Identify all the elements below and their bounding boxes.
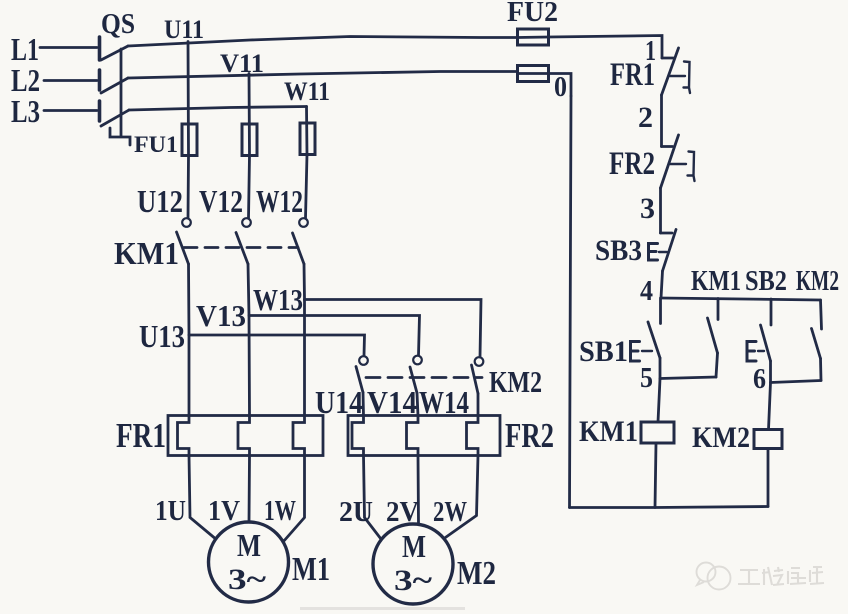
fuse FU1 pole 1 body [182,124,197,156]
pushbutton SB1 blade [648,322,660,358]
wire branch V13 to KM2 pole 2 [249,316,420,356]
wire fuse FU1c to contactor KM1 pole 3 [306,155,308,219]
pushbutton SB2 actuator E [747,342,756,362]
wire node 2 to node 3 [659,188,662,233]
fuse FU2a body [518,29,549,45]
contactor KM2 pole 1 fixed contact circle [359,356,368,365]
svg-text:M: M [237,527,261,563]
wire coil KM2 to bottom rail [767,449,770,507]
wire branch W13 to KM2 pole 3 [305,300,482,358]
pushbutton SB1 actuator E [631,342,640,362]
fuse FU2a through wire [518,36,549,39]
contactor KM2 pole 1 blade [356,367,363,393]
contactor KM2 pole 3 blade [472,365,479,394]
wire phase W11 horizontal [129,107,307,111]
svg-text:1V: 1V [208,495,240,527]
thermal contact FR2 release symbol [688,152,695,182]
wire L1 lead-in [40,46,97,49]
svg-text:U12: U12 [137,183,183,219]
thermal relay FR1 heater 1 [178,416,190,456]
motor M2 circle [373,524,453,604]
svg-text:SB3: SB3 [595,234,642,267]
svg-text:KM2: KM2 [489,364,542,399]
svg-text:V11: V11 [220,49,264,78]
thermal relay FR1 heater 3 [293,416,305,456]
switch QS linkage bar [120,49,123,136]
svg-text:W11: W11 [284,77,330,106]
svg-text:5: 5 [640,363,653,394]
thermal relay FR2 heater 3 [467,416,479,456]
svg-text:FR2: FR2 [505,416,554,455]
svg-text:3~: 3~ [228,563,266,596]
svg-text:SB2: SB2 [745,266,787,297]
svg-text:M1: M1 [292,551,330,588]
contactor KM1 pole 1 blade [177,232,189,264]
contact KM2 aux bottom wire [819,359,822,381]
svg-text:2W: 2W [433,496,467,528]
svg-text:U11: U11 [164,15,204,44]
svg-text:2: 2 [638,101,653,134]
thermal contact FR1 blade [662,48,679,95]
wire branch U13 to KM2 pole 1 [189,335,365,356]
svg-text:V12: V12 [199,183,243,219]
wire node 4 rail [661,298,821,300]
thermal contact FR2 blade [661,135,679,188]
watermark text [738,567,824,585]
contact KM1 aux bottom wire [716,353,718,377]
wire SB2 to node 6 [769,361,772,383]
fuse FU1 pole 3 body [300,123,315,155]
contactor KM1 pole 2 blade [236,233,248,265]
motor M1 circle [209,522,289,602]
svg-text:1W: 1W [264,495,296,527]
contactor KM1 pole 1 fixed contact circle [182,218,191,227]
pushbutton SB1 top wire [659,298,662,324]
svg-text:4: 4 [640,276,653,307]
svg-text:W12: W12 [256,183,303,219]
pushbutton SB2 dash [758,350,764,352]
switch QS pole 2 blade [101,78,128,93]
wire KM1 pole2 to node V13 [248,264,249,316]
wire column U13 down to FR1 [188,335,191,416]
contactor KM2 linkage dashed [366,376,482,379]
wire SB1 to node 5 [659,358,662,379]
switch QS pole 1 fixed contact [98,37,102,60]
svg-text:KM2: KM2 [692,421,750,454]
fuse FU1 pole 2 body [242,124,257,156]
wire column W13 down to FR1 [303,300,306,417]
thermal contact FR1 dash [670,75,685,77]
svg-text:FU2: FU2 [507,0,558,28]
wire FR1 pole1 to motor M1 [189,456,216,540]
contactor KM2 pole 3 fixed contact circle [475,357,484,366]
contactor KM1 linkage dashed [184,246,298,249]
thermal relay FR2 heater 1 [352,416,364,456]
contact KM1 aux top wire [717,299,720,320]
thermal relay FR1 box [168,416,323,456]
wire node 6 to coil KM2 [769,383,771,430]
wire FR2 pole1 to motor M2 [364,456,382,540]
switch QS pole 3 fixed contact [98,101,102,121]
svg-text:QS: QS [101,8,135,40]
wire node 1 to node 2 [660,95,663,147]
pushbutton SB1 dash [642,350,652,352]
svg-text:KM1: KM1 [114,235,179,271]
fuse FU2b body [518,66,549,82]
switch QS pole 3 blade [101,110,129,126]
pushbutton SB3 blade [663,230,677,272]
svg-text:KM2: KM2 [796,266,839,297]
contact KM2 aux blade [812,329,821,359]
wire FR2 pole2 to motor M2 [417,456,420,525]
wire return line left vertical [570,96,572,508]
wire node 3 to node 4 [661,271,663,298]
coil KM2 body [754,430,782,449]
wire fuse FU1b to contactor KM1 pole 2 [249,156,250,219]
contactor KM1 pole 3 blade [293,233,305,264]
pushbutton SB3 actuator E [649,244,658,261]
svg-text:FR2: FR2 [609,146,655,182]
svg-text:SB1: SB1 [579,335,628,368]
svg-text:M: M [402,528,426,564]
switch QS pole 1 blade [101,46,128,60]
fuse FU2b through wire [518,72,549,75]
wire node 5 to coil KM1 [658,379,660,422]
wire KM2 pole3 to FR2 [477,394,480,417]
pushbutton SB3 dash [659,251,667,253]
contact KM2 aux top wire [821,300,822,329]
wire FR1 pole3 to motor M1 [283,456,305,543]
svg-text:6: 6 [753,364,766,395]
svg-text:3: 3 [640,192,655,225]
wire KM1 pole3 to node W13 [303,264,306,300]
wire phase V11 horizontal to FU2 [128,72,517,79]
wire FU2a to control corner [549,36,663,59]
pushbutton SB2 blade [761,325,771,361]
contactor KM1 pole 3 fixed contact circle [299,218,308,227]
wire V column from line 2 to fuse FU1b [248,74,251,157]
svg-text:KM1: KM1 [691,266,741,297]
svg-text:KM1: KM1 [579,415,638,448]
svg-text:L3: L3 [11,93,40,129]
thermal relay FR1 heater 2 [238,416,250,456]
thermal contact FR1 release symbol [684,62,691,94]
pushbutton SB3 jog bar [661,232,673,235]
wire U column from line 1 to fuse FU1a [187,42,190,157]
wire FR2 pole3 to motor M2 [444,456,478,539]
pushbutton SB2 top wire [770,299,773,325]
contactor KM2 pole 2 blade [410,367,417,393]
svg-text:2U: 2U [339,496,373,528]
wire FR1 pole2 to motor M1 [248,456,251,523]
wire column V13 down to FR1 [248,316,251,417]
svg-text:FR1: FR1 [610,57,655,93]
svg-text:3~: 3~ [394,564,432,597]
wire fuse FU1a to contactor KM1 pole 1 [187,156,190,219]
contactor KM1 pole 2 fixed contact circle [242,218,251,227]
scan smudge bottom [300,607,465,610]
thermal contact FR1 jog bar [662,57,674,60]
thermal contact FR2 jog bar [662,145,673,148]
svg-text:W13: W13 [253,282,303,317]
svg-text:1U: 1U [155,495,186,527]
svg-text:0: 0 [554,72,567,103]
wire FU2b to return line corner [549,74,572,97]
wire L3 lead-in [44,109,97,112]
watermark logo bubbles [697,563,731,590]
thermal relay FR2 heater 2 [407,416,419,456]
wire W column from line 3 to fuse FU1c [305,107,308,156]
switch QS handle hook [110,128,130,145]
wire L2 lead-in [44,79,97,82]
wire coil KM1 to bottom rail [655,443,656,508]
switch QS pole 2 fixed contact [98,70,102,90]
svg-text:V13: V13 [196,298,246,333]
wire KM1 pole1 to node U13 [187,264,190,335]
wire KM2 pole1 to FR2 [362,393,365,417]
svg-text:U13: U13 [139,318,185,354]
svg-text:M2: M2 [457,555,496,592]
contactor KM2 pole 2 fixed contact circle [413,356,422,365]
svg-text:FU1: FU1 [134,132,178,157]
thermal contact FR2 dash [670,163,686,165]
wire KM2 pole2 to FR2 [417,393,418,416]
wire node 5 rail [660,377,716,379]
coil KM1 body [641,422,674,443]
contact KM1 aux blade [708,318,718,353]
wire node 6 rail [771,381,822,383]
svg-text:FR1: FR1 [116,416,166,455]
wire bottom return rail [570,507,769,508]
thermal relay FR2 box [348,416,500,456]
wire phase U11 horizontal to FU2 [128,37,517,47]
